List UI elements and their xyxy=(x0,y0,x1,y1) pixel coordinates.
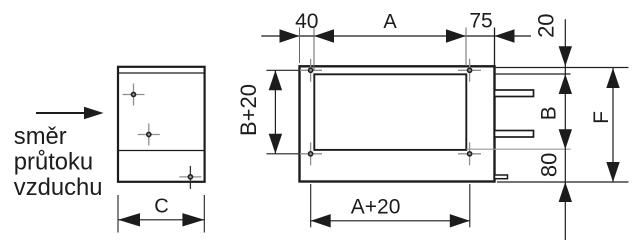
svg-text:B: B xyxy=(538,106,561,120)
right figure: front view outer box xyxy=(300,66,495,181)
hole marker 1 (left fig) xyxy=(123,84,145,106)
top chain extension line at box right xyxy=(494,28,496,67)
top chain extension line at box left xyxy=(299,28,301,64)
B+20 extension lines xyxy=(266,69,300,71)
right ref line: inner top extended xyxy=(495,73,571,75)
right figure: inner rectangle xyxy=(314,74,466,150)
hole marker 2 (left fig) xyxy=(138,124,160,146)
hole marker BR (right fig) xyxy=(458,142,481,165)
svg-text:20: 20 xyxy=(533,13,558,37)
top chain extension line at inner right xyxy=(465,28,467,67)
left figure: side view box xyxy=(118,67,205,182)
dimension C line and arrows xyxy=(118,213,204,226)
B+20 dimension line and arrows xyxy=(269,70,282,154)
svg-text:A+20: A+20 xyxy=(351,195,401,218)
pin top xyxy=(495,90,534,97)
svg-text:C: C xyxy=(154,196,168,218)
left figure: top inner line xyxy=(118,72,205,74)
top chain extension line at inner left xyxy=(313,28,315,71)
svg-text:40: 40 xyxy=(295,10,318,33)
A+20 dimension line and arrows xyxy=(311,214,470,227)
svg-text:75: 75 xyxy=(469,10,492,33)
hole marker TR (right fig) xyxy=(458,59,481,82)
F dimension line and arrows xyxy=(606,68,619,182)
dimension C extension lines xyxy=(117,195,119,233)
left figure: divider line xyxy=(118,150,205,152)
right ref line: box top edge extended xyxy=(495,67,629,69)
hole marker TL (right fig) xyxy=(299,59,322,82)
label: směr průtoku vzduchu xyxy=(14,123,103,201)
right ref line: box bottom extended xyxy=(497,181,629,183)
svg-text:B+20: B+20 xyxy=(236,84,261,136)
svg-text:vzduchu: vzduchu xyxy=(14,174,103,201)
svg-text:průtoku: průtoku xyxy=(14,149,93,176)
right chain arrows (20 / B / 80) xyxy=(559,46,572,202)
A+20 extension lines xyxy=(310,184,312,227)
right dimension chain vertical line xyxy=(564,19,566,240)
bottom foot tab xyxy=(495,175,508,179)
hole marker 3 (left fig, bottom) xyxy=(179,166,201,189)
hole marker BL (right fig) xyxy=(299,142,322,165)
svg-text:80: 80 xyxy=(536,153,561,177)
svg-text:A: A xyxy=(383,11,397,33)
svg-text:F: F xyxy=(590,111,613,124)
svg-text:směr: směr xyxy=(14,123,67,150)
right ref line: inner bottom extended (grey) xyxy=(467,148,571,150)
top chain arrows xyxy=(280,29,515,42)
pin bottom xyxy=(495,131,534,138)
air flow arrow xyxy=(36,107,104,119)
top dimension chain line xyxy=(261,35,531,37)
